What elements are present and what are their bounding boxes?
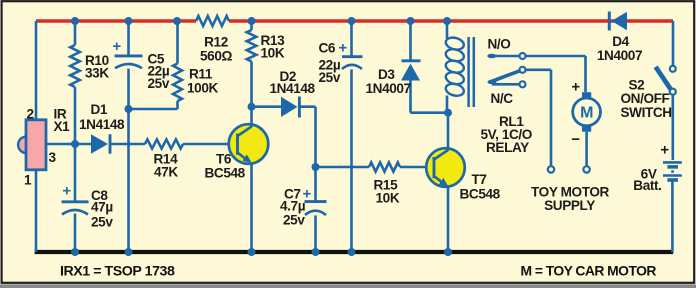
svg-text:SUPPLY: SUPPLY bbox=[544, 198, 595, 213]
wire T6 emitter bbox=[250, 163, 253, 253]
transistor T6 bbox=[229, 124, 269, 164]
svg-text:M: M bbox=[580, 105, 593, 122]
svg-text:BC548: BC548 bbox=[460, 187, 501, 202]
svg-text:−: − bbox=[571, 131, 580, 148]
battery 6V bbox=[663, 161, 682, 164]
node dot D2/C7/R15 bbox=[312, 163, 320, 171]
svg-text:D1: D1 bbox=[91, 102, 108, 117]
node dot relay/T7 bbox=[444, 109, 452, 117]
svg-text:BC548: BC548 bbox=[205, 166, 246, 181]
svg-text:25v: 25v bbox=[319, 70, 341, 85]
resistor R15 bbox=[369, 162, 400, 171]
svg-text:M = TOY CAR MOTOR: M = TOY CAR MOTOR bbox=[521, 263, 657, 279]
contact N/O bbox=[487, 54, 496, 59]
wire T6 collector to D2 bbox=[252, 105, 282, 108]
svg-text:+: + bbox=[62, 183, 71, 200]
svg-text:RELAY: RELAY bbox=[486, 140, 529, 155]
diode D1 bbox=[91, 134, 108, 153]
svg-text:1N4148: 1N4148 bbox=[79, 117, 125, 132]
svg-text:T7: T7 bbox=[472, 172, 487, 187]
wire node to R15 bbox=[316, 166, 370, 169]
svg-text:+: + bbox=[112, 38, 121, 55]
wire pin1 bbox=[35, 169, 38, 252]
svg-text:47K: 47K bbox=[154, 165, 178, 180]
wire T7 collector bbox=[447, 113, 450, 149]
resistor R11 bbox=[173, 64, 182, 102]
wire +V red bus bbox=[36, 19, 673, 22]
node dots ground bus bbox=[71, 248, 79, 256]
svg-text:R12: R12 bbox=[204, 35, 229, 50]
svg-text:10K: 10K bbox=[261, 45, 285, 60]
svg-text:+: + bbox=[571, 79, 580, 96]
terminal supply-1 bbox=[548, 166, 554, 172]
capacitor C7 bbox=[314, 167, 317, 201]
svg-text:X1: X1 bbox=[54, 119, 71, 134]
node dot C5/R11 bbox=[125, 105, 133, 113]
wire ground bus bbox=[35, 250, 674, 254]
wire R15 to T7 base bbox=[400, 166, 434, 169]
svg-text:R11: R11 bbox=[189, 66, 213, 81]
relay core bbox=[467, 37, 470, 107]
svg-text:D3: D3 bbox=[378, 67, 395, 82]
wire T6 collector bbox=[250, 107, 253, 126]
relay RL1 coil bbox=[446, 21, 449, 113]
svg-text:4.7µ: 4.7µ bbox=[280, 199, 306, 214]
wire T7 emitter bbox=[447, 186, 450, 253]
svg-text:IRX1 = TSOP 1738: IRX1 = TSOP 1738 bbox=[60, 264, 175, 280]
wire motor to supply bbox=[585, 132, 588, 166]
wire pole to supply bbox=[526, 70, 551, 166]
contact pole lever bbox=[488, 80, 497, 85]
svg-text:+: + bbox=[660, 142, 669, 159]
svg-text:25v: 25v bbox=[91, 215, 113, 230]
wire C5 branch bbox=[127, 21, 130, 253]
resistor R10 bbox=[70, 45, 80, 87]
svg-text:+: + bbox=[339, 40, 348, 57]
wire R11 branch bbox=[176, 21, 179, 109]
IR receiver X1 bbox=[18, 137, 34, 153]
resistor R13 bbox=[247, 30, 257, 62]
svg-text:100K: 100K bbox=[187, 81, 218, 96]
svg-text:T6: T6 bbox=[216, 152, 232, 167]
diode D3 bbox=[402, 59, 421, 62]
wire C5-R11 link bbox=[129, 108, 178, 111]
wire R14 to T6 base bbox=[183, 143, 238, 146]
svg-text:33K: 33K bbox=[85, 66, 109, 81]
svg-text:1N4148: 1N4148 bbox=[270, 81, 316, 96]
switch S2 bbox=[672, 21, 675, 66]
wire C6 branch bbox=[350, 21, 353, 253]
svg-text:1N4007: 1N4007 bbox=[366, 81, 411, 96]
resistor R14 bbox=[145, 139, 183, 148]
svg-text:1: 1 bbox=[24, 173, 32, 188]
capacitor C8 bbox=[62, 200, 89, 203]
svg-text:ON/OFF: ON/OFF bbox=[621, 91, 670, 106]
transistor T7 bbox=[426, 148, 465, 187]
svg-text:1N4007: 1N4007 bbox=[597, 48, 642, 63]
diode D4 bbox=[612, 12, 628, 30]
terminal supply-2 bbox=[583, 166, 589, 172]
svg-text:D4: D4 bbox=[612, 34, 629, 49]
svg-text:10K: 10K bbox=[376, 191, 400, 206]
svg-text:2: 2 bbox=[27, 107, 35, 122]
wire D3 branch bbox=[411, 21, 449, 113]
node dots top bus bbox=[71, 17, 79, 25]
svg-text:25v: 25v bbox=[283, 213, 305, 228]
wire R10 branch bbox=[74, 21, 77, 253]
svg-text:SWITCH: SWITCH bbox=[621, 105, 672, 120]
wire R13 branch bbox=[250, 21, 253, 107]
wire N/O to motor bbox=[526, 56, 586, 92]
svg-text:N/O: N/O bbox=[488, 37, 511, 52]
svg-text:25v: 25v bbox=[148, 76, 170, 91]
svg-text:C6: C6 bbox=[319, 41, 336, 56]
wire pin2 bbox=[35, 21, 38, 120]
svg-text:Batt.: Batt. bbox=[633, 178, 661, 193]
node dot T6 collector bbox=[248, 103, 256, 111]
wire pin3 to D1 bbox=[46, 143, 91, 146]
capacitor C5 bbox=[115, 54, 143, 57]
contact N/C bbox=[492, 83, 519, 86]
svg-text:N/C: N/C bbox=[491, 91, 514, 106]
svg-text:47µ: 47µ bbox=[91, 200, 113, 215]
svg-text:560Ω: 560Ω bbox=[200, 49, 232, 64]
wire D2 to node bbox=[299, 107, 315, 167]
resistor R12 bbox=[196, 16, 229, 26]
node dot pin3/R10 bbox=[71, 140, 79, 148]
svg-text:3: 3 bbox=[49, 150, 57, 165]
capacitor C6 bbox=[342, 55, 363, 58]
motor M bbox=[582, 92, 591, 98]
diode D2 bbox=[281, 97, 298, 117]
